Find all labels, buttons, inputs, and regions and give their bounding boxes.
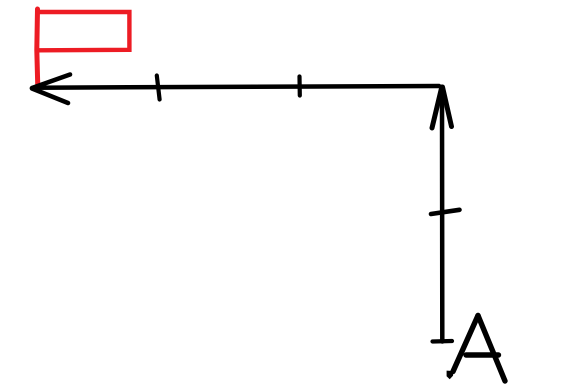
letter A right leg — [478, 316, 505, 382]
tick mark on vertical shaft — [431, 210, 460, 214]
tick mark 2 on horizontal shaft — [297, 77, 301, 96]
left arrowhead lower barb — [32, 89, 68, 104]
bottom end cap of vertical shaft — [433, 339, 453, 344]
left arrowhead upper barb — [32, 75, 70, 89]
letter A left-leg foot blob — [447, 371, 454, 380]
flag rectangle (red) — [38, 12, 130, 50]
letter A left leg — [453, 316, 478, 372]
horizontal vector shaft — [33, 86, 439, 88]
up arrowhead left barb — [432, 87, 442, 128]
letter A crossbar — [466, 352, 499, 357]
up arrowhead right barb — [443, 87, 452, 127]
flag pole (red vertical stroke) — [37, 9, 38, 88]
vertical vector shaft — [440, 88, 445, 342]
tick mark 1 on horizontal shaft — [157, 76, 160, 100]
